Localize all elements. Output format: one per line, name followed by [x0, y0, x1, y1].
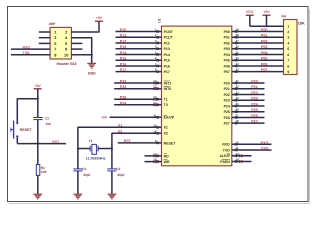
U1 pin 16 (WR) no-connect: [145, 161, 162, 163]
wire crystal right stub: [98, 148, 112, 150]
svg-text:P15: P15: [120, 57, 127, 61]
svg-text:P04: P04: [224, 53, 230, 57]
svg-text:P26: P26: [224, 116, 230, 120]
svg-text:30: 30: [236, 152, 240, 156]
svg-text:11: 11: [236, 146, 239, 150]
svg-text:P16: P16: [164, 64, 170, 68]
U1 pin 9 (RESET): [118, 142, 162, 144]
svg-text:P11/T: P11/T: [164, 36, 174, 40]
wire branch to button top: [17, 98, 38, 100]
svg-text:P13: P13: [164, 47, 170, 51]
connector JMP (Header 5X2) body: [50, 27, 71, 59]
U1 pin 39 (P00) wire to RP pin, net label P00: [232, 31, 284, 33]
svg-text:P25: P25: [251, 108, 258, 112]
U1 pin 19 (X1): [156, 126, 158, 128]
svg-text:RXD: RXD: [23, 45, 31, 49]
svg-text:Y1: Y1: [89, 139, 93, 143]
wire JMP pin3 stub: [39, 37, 50, 39]
svg-text:P21: P21: [251, 85, 258, 89]
svg-text:29: 29: [236, 158, 240, 162]
svg-text:10u: 10u: [45, 122, 51, 126]
U1 pin 11 (TXD) with net label TXD: [232, 149, 272, 151]
svg-text:35: 35: [236, 50, 240, 54]
svg-text:P33: P33: [120, 79, 127, 83]
svg-text:RD: RD: [164, 154, 170, 158]
U1 pin 1 (P10/T) with net label P10: [116, 31, 162, 33]
U1 pin 5 (P14) with net label P14: [116, 53, 162, 55]
wire JMP pin10 to gnd rail: [71, 54, 91, 56]
U1 pin 8 (P17) with net label P17: [116, 71, 162, 73]
svg-text:P07: P07: [261, 68, 268, 72]
svg-text:10K: 10K: [41, 170, 48, 174]
wire JMP pin2 to +5V: [71, 31, 99, 33]
svg-text:22: 22: [236, 85, 240, 89]
svg-text:P24: P24: [251, 102, 259, 106]
svg-text:24: 24: [236, 96, 240, 100]
svg-text:ALE/P: ALE/P: [219, 154, 230, 158]
svg-text:R1: R1: [41, 166, 45, 170]
svg-text:P04: P04: [261, 51, 269, 55]
svg-text:P27: P27: [224, 122, 230, 126]
wire C1 to ground: [77, 171, 79, 194]
svg-text:GND: GND: [88, 72, 96, 76]
svg-text:P03: P03: [224, 47, 230, 51]
U1 pin 6 (P15) with net label P15: [116, 59, 162, 61]
wire RXD to JMP pin7: [11, 48, 50, 50]
U1 pin 18 (X2): [156, 132, 158, 134]
svg-text:TXD: TXD: [261, 146, 269, 150]
svg-text:P22: P22: [251, 91, 258, 95]
svg-text:+5V: +5V: [96, 16, 103, 20]
svg-text:TXD: TXD: [223, 148, 230, 152]
ground (reset circuit): [33, 193, 42, 195]
U1 pin 25 (P24) with net label P24: [232, 105, 265, 107]
svg-text:RXD: RXD: [261, 141, 269, 145]
svg-text:7: 7: [287, 59, 289, 63]
junction crystal left: [77, 147, 79, 149]
ground (C1): [74, 193, 83, 195]
svg-text:26: 26: [236, 108, 240, 112]
svg-text:30pF: 30pF: [117, 173, 124, 177]
svg-text:27: 27: [236, 113, 240, 117]
U1 pin 31 (EA/VP): [110, 116, 162, 118]
U1 pin 7 (P16) with net label P16: [116, 65, 162, 67]
U1 pin 10 (RXD) with net label RXD: [232, 143, 272, 145]
svg-text:R4: R4: [282, 15, 286, 19]
svg-text:4: 4: [287, 41, 289, 45]
svg-text:P00: P00: [224, 30, 230, 34]
svg-text:6: 6: [287, 53, 289, 57]
svg-text:10: 10: [236, 140, 240, 144]
svg-text:P14: P14: [120, 51, 128, 55]
wire +5V down to C3: [37, 89, 39, 118]
wire VCC stem: [249, 15, 251, 26]
svg-text:P17: P17: [164, 70, 170, 74]
resistor network R4 body: [284, 20, 298, 75]
svg-text:P07: P07: [224, 70, 230, 74]
svg-text:2: 2: [287, 30, 289, 34]
svg-text:P26: P26: [251, 114, 258, 118]
U1 pin 23 (P22) with net label P22: [232, 93, 265, 95]
junction RST / R1: [37, 143, 39, 145]
wire RST node to R1: [37, 144, 39, 165]
svg-text:U1: U1: [157, 18, 161, 23]
svg-text:P20: P20: [251, 79, 258, 83]
svg-text:X1: X1: [164, 126, 168, 130]
svg-text:18: 18: [153, 129, 157, 133]
U1 pin 30 (ALE/P) no-connect: [232, 155, 252, 157]
wire button top vertical: [16, 98, 18, 122]
svg-text:P27: P27: [251, 120, 258, 124]
svg-text:JMP: JMP: [49, 22, 57, 26]
svg-text:P23: P23: [251, 97, 258, 101]
crystal Y1: [89, 146, 91, 152]
wire button bottom vertical: [16, 137, 18, 144]
junction JMP pin10 / gnd rail: [91, 54, 93, 56]
svg-text:P12: P12: [164, 41, 170, 45]
capacitor C3: [33, 117, 42, 119]
svg-text:P16: P16: [120, 62, 127, 66]
wire JMP pin4 to gnd rail: [71, 37, 91, 39]
svg-text:P06: P06: [224, 64, 230, 68]
wire X1 node down to C1: [77, 149, 79, 169]
wire TXD to JMP pin9: [11, 54, 50, 56]
wire X2 net: [112, 132, 162, 134]
svg-text:P14: P14: [164, 53, 170, 57]
svg-text:34: 34: [236, 56, 240, 60]
U1 pin 27 (P26) with net label P26: [232, 116, 265, 118]
resistor R1: [36, 165, 40, 176]
U1 pin 32 (P07) wire to RP pin, net label P07: [232, 71, 284, 73]
U1 pin 3 (P12) with net label P12: [116, 42, 162, 44]
svg-text:31: 31: [153, 113, 157, 117]
svg-text:C2: C2: [116, 167, 120, 171]
svg-text:P02: P02: [224, 41, 230, 45]
junction crystal right: [111, 147, 113, 149]
capacitor C1: [73, 168, 82, 170]
svg-text:C3: C3: [45, 116, 49, 120]
U1 pin 38 (P01) wire to RP pin, net label P01: [232, 36, 284, 38]
svg-text:30pF: 30pF: [83, 173, 90, 177]
svg-text:VCC: VCC: [246, 10, 254, 14]
svg-text:5: 5: [287, 47, 289, 51]
junction +5V / button branch: [37, 98, 39, 100]
svg-text:WR: WR: [164, 160, 170, 164]
U1 pin 28 (P27) with net label P27: [232, 122, 265, 124]
svg-text:P25: P25: [224, 110, 230, 114]
svg-text:38: 38: [236, 33, 240, 37]
wire JMP pin5 stub: [39, 42, 50, 44]
svg-text:P20: P20: [224, 81, 230, 85]
svg-text:X2: X2: [118, 130, 122, 134]
svg-text:+5V: +5V: [101, 116, 108, 120]
svg-text:33: 33: [236, 62, 240, 66]
svg-text:RST: RST: [124, 139, 132, 143]
svg-text:8: 8: [287, 64, 289, 68]
U1 pin 35 (P04) wire to RP pin, net label P04: [232, 53, 284, 55]
wire C2 to ground: [111, 171, 113, 194]
svg-text:TXD: TXD: [23, 51, 30, 55]
svg-text:+5V: +5V: [263, 10, 270, 14]
svg-text:PSEN: PSEN: [220, 160, 230, 164]
svg-text:P02: P02: [261, 39, 268, 43]
svg-text:11.0592MHz: 11.0592MHz: [86, 157, 106, 161]
wire JMP pin8 stub: [71, 48, 82, 50]
svg-text:+5V: +5V: [34, 84, 41, 88]
svg-text:RESET: RESET: [20, 128, 33, 132]
svg-text:P32: P32: [120, 85, 127, 89]
svg-text:P22: P22: [224, 93, 230, 97]
svg-text:P01: P01: [261, 34, 268, 38]
wire button bottom to RST: [17, 143, 66, 145]
wire C3 to RST node: [37, 120, 39, 144]
U1 pin 29 (PSEN) no-connect: [232, 161, 252, 163]
wire rail to R4 pin 1: [250, 25, 284, 27]
svg-text:X2: X2: [164, 132, 168, 136]
U1 pin 13 (INT1) with net label P33: [114, 82, 161, 84]
svg-text:10K: 10K: [298, 21, 305, 25]
U1 pin 4 (P13) with net label P13: [116, 48, 162, 50]
svg-text:19: 19: [153, 123, 157, 127]
svg-text:P03: P03: [261, 45, 268, 49]
U1 pin 22 (P21) with net label P21: [232, 88, 265, 90]
U1 pin 33 (P06) wire to RP pin, net label P06: [232, 65, 284, 67]
svg-text:P23: P23: [224, 99, 230, 103]
svg-text:P24: P24: [224, 104, 230, 108]
svg-text:36: 36: [236, 45, 240, 49]
svg-text:Header 5X2: Header 5X2: [56, 62, 76, 66]
IC U1 (89C51) body: [162, 26, 232, 166]
ground (C2): [108, 193, 117, 195]
svg-text:P17: P17: [120, 68, 127, 72]
svg-text:T1: T1: [164, 98, 168, 102]
svg-text:X1: X1: [118, 124, 122, 128]
U1 pin 34 (P05) wire to RP pin, net label P05: [232, 59, 284, 61]
svg-text:32: 32: [236, 68, 240, 72]
svg-text:P34: P34: [120, 101, 128, 105]
sheet border: [8, 7, 309, 202]
svg-text:P35: P35: [120, 96, 127, 100]
svg-text:RESET: RESET: [164, 141, 177, 145]
wire X2 node down to C2: [111, 149, 113, 169]
svg-text:10: 10: [64, 52, 68, 57]
U1 pin 37 (P02) wire to RP pin, net label P02: [232, 42, 284, 44]
svg-text:RXD: RXD: [222, 143, 230, 147]
wire JMP pin6 stub: [71, 42, 82, 44]
svg-text:25: 25: [236, 102, 240, 106]
junction +5V / rail: [265, 25, 267, 27]
wire X1 net: [78, 126, 162, 128]
svg-text:P01: P01: [224, 36, 230, 40]
svg-text:9: 9: [287, 70, 289, 74]
svg-text:P10/T: P10/T: [164, 30, 174, 34]
svg-text:P12: P12: [120, 39, 127, 43]
svg-text:EA/VP: EA/VP: [164, 116, 175, 120]
U1 pin 17 (RD) no-connect: [145, 155, 162, 157]
svg-text:P13: P13: [120, 45, 127, 49]
U1 pin 36 (P03) wire to RP pin, net label P03: [232, 48, 284, 50]
U1 pin 21 (P20) with net label P20: [232, 82, 265, 84]
svg-text:P15: P15: [164, 59, 170, 63]
svg-text:7: 7: [54, 47, 56, 52]
svg-text:23: 23: [236, 90, 240, 94]
U1 pin 26 (P25) with net label P25: [232, 111, 265, 113]
U1 pin 12 (INT0) with net label P32: [114, 88, 161, 90]
U1 pin 2 (P11/T) with net label P11: [116, 36, 162, 38]
svg-text:INT1: INT1: [164, 81, 172, 85]
svg-text:P05: P05: [261, 57, 268, 61]
svg-text:37: 37: [236, 39, 240, 43]
svg-text:INT0: INT0: [164, 87, 172, 91]
U1 pin 24 (P23) with net label P23: [232, 99, 265, 101]
svg-text:C1: C1: [82, 167, 86, 171]
svg-text:28: 28: [236, 119, 240, 123]
svg-text:3: 3: [287, 36, 289, 40]
svg-text:P06: P06: [261, 62, 268, 66]
svg-text:P21: P21: [224, 87, 230, 91]
ground GND (header): [87, 62, 96, 64]
svg-text:P10: P10: [120, 28, 127, 32]
wire R1 to ground: [37, 175, 39, 194]
svg-text:P11: P11: [120, 34, 126, 38]
svg-text:P05: P05: [224, 59, 230, 63]
svg-text:21: 21: [236, 79, 240, 83]
svg-text:1: 1: [287, 25, 289, 29]
svg-text:39: 39: [236, 28, 240, 32]
svg-text:P00: P00: [261, 28, 268, 32]
svg-text:T0: T0: [164, 103, 168, 107]
svg-text:RST: RST: [52, 140, 60, 144]
U1 pin 15 (T1) with net label P35: [114, 98, 161, 100]
wire crystal left stub: [78, 148, 90, 150]
wire JMP pin1 stub: [39, 31, 50, 33]
push button RESET: [16, 122, 18, 124]
capacitor C2: [107, 168, 116, 170]
wire gnd vertical rail: [91, 37, 93, 63]
U1 pin 14 (T0) with net label P34: [114, 104, 161, 106]
wire +5V stem: [266, 15, 268, 26]
